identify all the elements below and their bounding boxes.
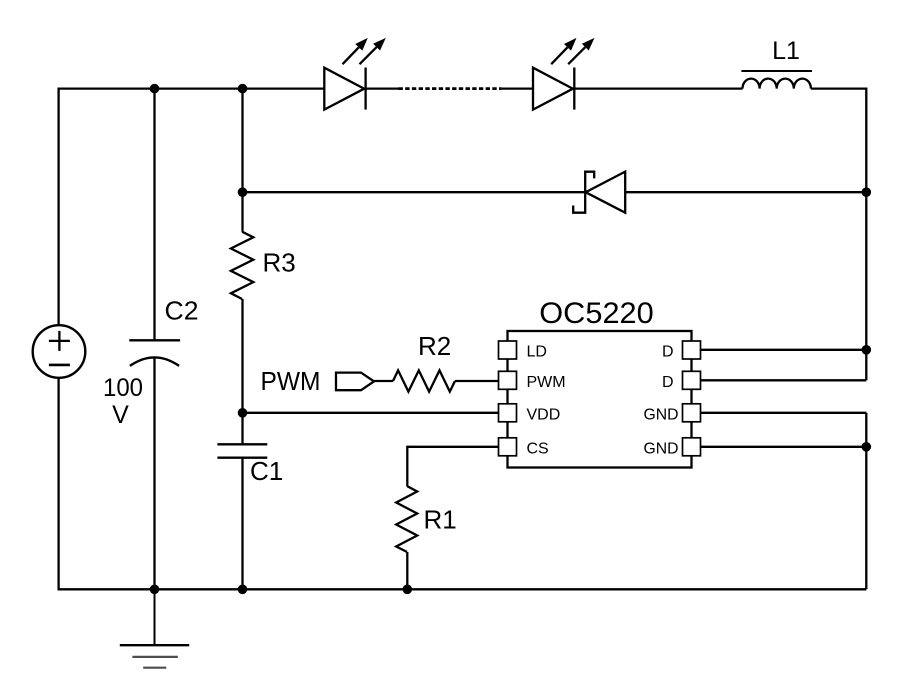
node top rail / C2 junction: [150, 84, 160, 94]
pin LD: [499, 341, 517, 359]
wire right rail lower run: [865, 413, 867, 590]
svg-text:R2: R2: [418, 331, 451, 361]
svg-text:D: D: [662, 374, 674, 391]
pin GND1: [683, 404, 701, 422]
wire R3 branch from top rail: [241, 89, 243, 232]
LED D1: [324, 38, 386, 110]
svg-text:R1: R1: [424, 505, 457, 535]
node bottom rail / C1 branch junction: [238, 585, 248, 595]
svg-text:GND: GND: [644, 407, 679, 424]
wire D2 pin to right rail: [701, 379, 867, 381]
node bottom rail / ground junction: [150, 585, 160, 595]
node top rail / R3 junction: [238, 84, 248, 94]
wire VDD pin to R3/C1 branch: [243, 412, 499, 414]
svg-text:L1: L1: [772, 37, 800, 65]
svg-text:PWM: PWM: [527, 374, 566, 391]
node VDD wire / R3 branch junction: [238, 408, 248, 418]
capacitor C2: [129, 340, 180, 366]
wire left rail upper: [57, 88, 59, 326]
wire PWM tag to R2: [373, 380, 393, 382]
pin D1: [683, 341, 701, 359]
wire LED D2 to inductor L1: [574, 87, 742, 89]
svg-text:D: D: [662, 344, 674, 361]
ground symbol: [120, 589, 189, 667]
wire freewheel diode row left segment: [243, 191, 586, 193]
wire between LED D1 and dashed section: [366, 87, 399, 89]
pin PWM: [499, 371, 517, 389]
wire R1 top lead: [406, 446, 408, 486]
node R3 branch / diode row junction: [238, 187, 248, 197]
svg-text:100: 100: [103, 374, 143, 402]
pin GND2: [683, 438, 701, 456]
op IC U1 OC5220 box: [508, 331, 692, 468]
inductor L1: [741, 71, 812, 89]
svg-text:LD: LD: [527, 344, 547, 361]
capacitor C1: [217, 444, 267, 457]
svg-text:R3: R3: [263, 248, 296, 278]
svg-text:CS: CS: [527, 441, 549, 458]
svg-text:C2: C2: [165, 295, 199, 325]
svg-text:PWM: PWM: [261, 366, 321, 396]
node D1 wire / right rail junction: [862, 345, 872, 355]
PWM input tag connector: [336, 373, 374, 391]
schottky diode D3: [573, 172, 625, 213]
wire CS pin to R1: [407, 446, 498, 448]
svg-text:VDD: VDD: [527, 407, 561, 424]
svg-text:V: V: [112, 401, 129, 429]
wire L1 to right rail top and right rail upper run: [811, 89, 866, 381]
node GND2 wire / right rail junction: [862, 442, 872, 452]
svg-text:GND: GND: [644, 441, 679, 458]
wire top rail left segment: [59, 87, 325, 89]
voltage source V1: [33, 325, 86, 378]
pin D2: [683, 371, 701, 389]
resistor R1: [396, 486, 417, 552]
wire left rail lower: [57, 378, 59, 590]
wire GND2 pin to right rail: [701, 446, 867, 448]
wire C2 branch from top rail: [153, 89, 155, 341]
wire C2 to bottom rail: [153, 358, 155, 590]
wire freewheel diode row right segment: [625, 191, 866, 193]
svg-text:C1: C1: [250, 456, 283, 486]
wire R1 bottom lead: [406, 552, 408, 589]
wire dashed (series LED ellipsis): [399, 87, 502, 90]
wire between dashed section and LED D2: [502, 87, 533, 89]
resistor R2: [393, 370, 455, 391]
LED D2: [533, 38, 595, 110]
wire D1 pin to right rail: [701, 349, 867, 351]
pin VDD: [499, 404, 517, 422]
wire C1 to bottom rail: [241, 458, 243, 590]
wire bottom rail: [58, 588, 867, 590]
wire GND1 pin to right rail: [701, 412, 867, 414]
node bottom rail / R1 junction: [403, 585, 413, 595]
wire R3 to C1 through VDD junction: [241, 299, 243, 444]
resistor R3: [231, 232, 253, 299]
node diode row / right rail junction: [862, 187, 872, 197]
svg-text:OC5220: OC5220: [539, 297, 654, 330]
wire R2 to PWM pin: [455, 380, 499, 382]
pin CS: [499, 438, 517, 456]
